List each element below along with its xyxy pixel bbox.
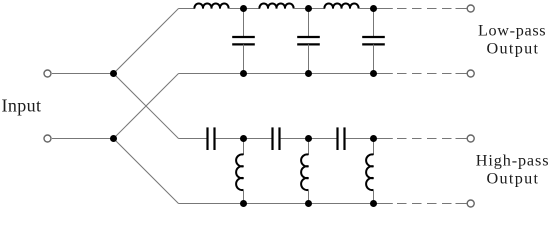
high-pass output terminal (-): [467, 200, 474, 207]
node: low-pass bottom rail junction 3: [370, 70, 377, 77]
capacitor C2 (shunt, low-pass): [297, 9, 320, 74]
wire: low-pass bottom rail dashed tail: [374, 73, 467, 75]
wire: diagonal top junction to high-pass top rail: [114, 74, 179, 139]
wire: low-pass top rail segment 3: [293, 8, 325, 10]
node: low-pass top rail junction 2: [305, 5, 312, 12]
node: bottom input junction: [110, 135, 117, 142]
wire: high-pass bottom rail dashed tail: [374, 203, 467, 205]
wire: high-pass bottom rail: [179, 203, 374, 205]
wire: high-pass top rail segment 1: [179, 138, 207, 140]
node: low-pass top rail junction 3: [370, 5, 377, 12]
svg-text:Input: Input: [2, 96, 42, 116]
capacitor C6 (series, high-pass): [338, 127, 345, 150]
node: high-pass bottom rail junction 2: [305, 200, 312, 207]
node: high-pass top rail junction 3: [370, 135, 377, 142]
svg-text:Output: Output: [487, 169, 539, 187]
input terminal (bottom): [44, 135, 51, 142]
node: top input junction: [110, 70, 117, 77]
wire: high-pass top rail segment 4: [346, 138, 374, 140]
wire: high-pass top rail segment 3: [281, 138, 337, 140]
inductor L6 (shunt, high-pass): [366, 139, 373, 204]
node: low-pass bottom rail junction 1: [240, 70, 247, 77]
wire: high-pass top rail segment 2: [216, 138, 272, 140]
wire: low-pass top rail dashed tail: [374, 8, 467, 10]
low-pass output terminal (+): [467, 5, 474, 12]
node: high-pass top rail junction 1: [240, 135, 247, 142]
wire: top input lead: [52, 73, 114, 75]
wire: diagonal bottom junction to low-pass bottom rail: [114, 74, 179, 139]
input terminal (top): [44, 70, 51, 77]
wire: low-pass top rail segment 2: [228, 8, 260, 10]
node: low-pass bottom rail junction 2: [305, 70, 312, 77]
capacitor C3 (shunt, low-pass): [362, 9, 385, 74]
wire: diagonal bottom junction to high-pass bottom rail: [114, 139, 179, 204]
node: high-pass bottom rail junction 1: [240, 200, 247, 207]
node: low-pass top rail junction 1: [240, 5, 247, 12]
inductor L2 (series, low-pass): [259, 4, 293, 9]
wire: low-pass top rail segment 1: [179, 8, 196, 10]
inductor L4 (shunt, high-pass): [236, 139, 243, 204]
wire: low-pass top rail segment 4: [358, 8, 374, 10]
inductor L1 (series, low-pass): [194, 4, 228, 9]
capacitor C5 (series, high-pass): [273, 127, 280, 150]
inductor L5 (shunt, high-pass): [301, 139, 308, 204]
wire: low-pass bottom rail: [179, 73, 374, 75]
svg-text:High-pass: High-pass: [476, 151, 549, 169]
capacitor C1 (shunt, low-pass): [232, 9, 255, 74]
low-pass output terminal (-): [467, 70, 474, 77]
wire: diagonal top junction to low-pass top rail: [114, 9, 179, 74]
wire: high-pass top rail dashed tail: [374, 138, 467, 140]
wire: bottom input lead: [52, 138, 114, 140]
high-pass output terminal (+): [467, 135, 474, 142]
svg-text:Output: Output: [487, 40, 539, 58]
node: high-pass bottom rail junction 3: [370, 200, 377, 207]
node: high-pass top rail junction 2: [305, 135, 312, 142]
svg-text:Low-pass: Low-pass: [478, 21, 546, 39]
capacitor C4 (series, high-pass): [208, 127, 215, 150]
inductor L3 (series, low-pass): [324, 4, 358, 9]
